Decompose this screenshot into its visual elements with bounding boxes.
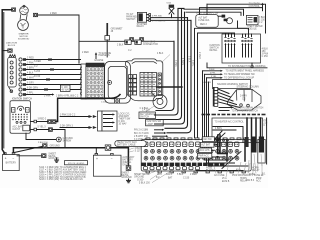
svg-text:FUSE 40A: FUSE 40A (198, 19, 209, 22)
wire: second top run (200, 8, 263, 15)
svg-text:3 PNK 150 C 2: 3 PNK 150 C 2 (60, 114, 76, 116)
bolt terminal on lower feed (48, 128, 52, 132)
svg-text:ACC LPS: ACC LPS (200, 149, 210, 152)
svg-text:5 BRN: 5 BRN (27, 68, 34, 70)
ground symbol G2 (127, 179, 131, 183)
C201 terminal pins (89, 115, 97, 118)
connector C201 housing (98, 111, 118, 131)
label above column connector (237, 87, 260, 89)
svg-text:3 PNK: 3 PNK (174, 60, 176, 67)
svg-text:1 WHT: 1 WHT (27, 78, 35, 80)
svg-text:−: − (12, 156, 14, 160)
label below module (247, 26, 263, 30)
svg-text:6 GRY: 6 GRY (27, 83, 34, 85)
fusible link box (196, 15, 218, 28)
svg-text:2 RED: 2 RED (82, 52, 89, 54)
fuse cavity row 1 (144, 142, 239, 147)
svg-text:C 150: C 150 (183, 178, 190, 180)
wire: battery feed to junction ring terminal (2, 50, 8, 52)
wire: stud feed upper (184, 9, 244, 15)
svg-text:5 BLK 28: 5 BLK 28 (203, 82, 212, 84)
lock cylinder circle (151, 93, 167, 109)
wire: relay to bundle (lower) (151, 19, 191, 21)
labels inside column connector (240, 94, 247, 100)
ground screw G101 (56, 137, 61, 142)
label: C100 48-way (60, 85, 70, 91)
svg-text:G 200: G 200 (137, 179, 144, 181)
callout box 2 (146, 119, 164, 125)
svg-text:HAZARD WARNING SWITCH: HAZARD WARNING SWITCH (217, 83, 248, 86)
label: JUNCTION BLOCK (6, 43, 17, 47)
relay bank on fuse block (251, 137, 256, 153)
svg-text:S 206: S 206 (34, 71, 41, 73)
wire: aux battery positive riser (95, 148, 97, 154)
svg-text:SWITCH: SWITCH (126, 19, 135, 21)
svg-text:2 RED: 2 RED (50, 13, 57, 15)
wire: main feed top run (207, 4, 266, 33)
wire: engine ground cable (79, 40, 174, 42)
leader lines right labels (214, 154, 262, 177)
svg-text:5 DK GRN 3: 5 DK GRN 3 (60, 125, 73, 127)
label: STARTER MOTOR SOLENOID (18, 33, 30, 41)
svg-text:SPLICE LEGEND: SPLICE LEGEND (68, 163, 85, 165)
leader lines from labels to block (148, 171, 170, 183)
leader and label 2 A 218 (142, 106, 155, 112)
svg-text:10 WAY: 10 WAY (119, 123, 128, 126)
battery bus to aux ground (111, 148, 129, 166)
bundle wire 2 (155, 8, 185, 115)
solenoid battery terminal bolt (left) (12, 8, 16, 11)
svg-text:5 PPL 806: 5 PPL 806 (152, 16, 162, 18)
splice legend header box (65, 161, 88, 165)
battery B1 (3, 153, 20, 171)
svg-text:+: + (96, 157, 98, 161)
bulkhead terminal row 4 (19, 73, 81, 78)
wire row under column: arrow (219, 106, 264, 109)
svg-text:2 BLK: 2 BLK (209, 69, 215, 71)
svg-text:IGN SW: IGN SW (203, 139, 212, 141)
labels left of callouts (140, 108, 149, 110)
knock sensor module U1 (246, 15, 258, 24)
svg-text:B/U 3 LT GRN: B/U 3 LT GRN (134, 133, 149, 135)
bolt terminals on ignition feed (48, 120, 56, 124)
solenoid switch terminal bolt (right) (33, 13, 37, 16)
fan-out wires to column connector (218, 89, 240, 108)
svg-text:SCREW: SCREW (63, 140, 72, 142)
svg-text:SOLENOID: SOLENOID (18, 38, 30, 40)
solenoid link between windings (20, 14, 27, 20)
bundle wire 12 (209, 82, 249, 166)
aux battery B2 (diesel) (93, 153, 121, 176)
bulkhead terminal row 2 (19, 63, 81, 68)
wire row: arrow 1 (203, 69, 265, 73)
plate terminal strip (158, 73, 161, 96)
svg-text:−: − (111, 157, 113, 161)
heavy take-off wire across bundle (157, 86, 184, 88)
labels right of detail box (262, 49, 269, 58)
svg-text:TO KEY ALARM SWITCH: TO KEY ALARM SWITCH (232, 109, 259, 112)
svg-text:4 BRN: 4 BRN (215, 128, 222, 130)
wire: connector C202 feed (60, 127, 89, 129)
label: grommet (111, 28, 124, 32)
svg-text:LAMP: LAMP (147, 123, 154, 126)
svg-text:4 PPL: 4 PPL (210, 73, 216, 75)
svg-text:IGN A: IGN A (166, 173, 173, 176)
contact set B (241, 34, 252, 57)
starter interrupt relay R1 (137, 12, 150, 22)
junction stud with nuts (218, 15, 232, 24)
heavy ignition feed wire up and right (56, 95, 120, 122)
ignition switch mounting plate (125, 59, 162, 101)
svg-text:IGN ST: IGN ST (12, 129, 20, 131)
relay fan leaders to labels (244, 163, 263, 176)
svg-text:S 117: S 117 (135, 150, 142, 152)
ignition switch box (10, 101, 30, 133)
leader from plate to bundle labels (161, 55, 170, 64)
svg-text:RELAY: RELAY (137, 25, 145, 28)
svg-text:2 RED: 2 RED (198, 52, 200, 59)
wire row under column 2 (219, 109, 258, 112)
wire: solenoid S terminal to engine harness (38, 15, 79, 63)
junction block terminals (10, 61, 13, 84)
svg-text:3 YEL: 3 YEL (211, 76, 217, 78)
bundle wire labels (174, 52, 200, 67)
svg-text:ENGINE: ENGINE (95, 60, 104, 62)
C100 bulkhead connector pin grid (86, 67, 104, 99)
svg-text:GROUND: GROUND (50, 146, 61, 148)
svg-text:SHEET METAL: SHEET METAL (134, 173, 150, 176)
wire: feed into fusible link box (206, 4, 208, 14)
svg-text:S218 = 3 PNK (2M) TO FUSE BLOC: S218 = 3 PNK (2M) TO FUSE BLOCK IGN (39, 179, 83, 181)
labels right of convenience center (263, 119, 268, 127)
svg-text:ALT BAT: ALT BAT (201, 144, 211, 147)
bundle wire 8 into fuse block (198, 33, 235, 138)
svg-text:3 PPL: 3 PPL (27, 93, 34, 95)
svg-text:3 PPL: 3 PPL (191, 60, 193, 67)
svg-text:ACC: ACC (157, 173, 162, 176)
bundle wire 11 (207, 78, 235, 163)
svg-text:2 RED: 2 RED (190, 174, 197, 176)
svg-text:TO INSTRUMENT PANEL DIMMING: TO INSTRUMENT PANEL DIMMING (228, 65, 266, 68)
svg-text:2 BLK 150: 2 BLK 150 (38, 142, 49, 144)
wire: pin to bolts (37, 121, 48, 123)
svg-text:5 YEL 3: 5 YEL 3 (38, 127, 47, 129)
C100 bulkhead connector header bar (86, 63, 104, 67)
svg-text:ACC BAT: ACC BAT (12, 126, 22, 129)
starter motor solenoid lower body (18, 20, 29, 31)
convenience center wires (213, 120, 244, 142)
connector position assurance boxes (top) (125, 40, 158, 46)
svg-text:3 RED 2: 3 RED 2 (38, 119, 47, 121)
wire corner to module bottom (238, 21, 247, 28)
bulkhead terminal row 6 (19, 83, 81, 86)
battery stud bolt on ground cable (130, 38, 134, 42)
fuse block mounting feet (146, 171, 245, 173)
steering column connector pin stack (213, 87, 218, 106)
fuse block internal bus columns (227, 140, 245, 161)
label: aux sheet metal ground (121, 172, 132, 179)
fuse block top tabs (146, 138, 248, 140)
fuse cavity row 4 (144, 167, 200, 170)
stud bolt on battery bus (105, 145, 111, 150)
fuse block labels bottom-left (134, 173, 150, 185)
convenience center pin dots (215, 139, 229, 141)
svg-text:S RED: S RED (34, 61, 41, 63)
junction block body (8, 55, 17, 93)
fuse cavity row 2 (144, 149, 239, 153)
arrow to spark control (249, 2, 264, 10)
convenience center internal verticals (247, 118, 261, 143)
wire: lower pin to battery bus (37, 130, 65, 148)
labels right of riser (130, 148, 142, 153)
wire row: arrow 3 (207, 76, 255, 80)
svg-text:ECM B: ECM B (222, 181, 230, 183)
labels above ignition feed wires (44, 95, 79, 97)
svg-text:STEERING COLUMN: STEERING COLUMN (237, 87, 260, 89)
callout rows with arrows (center) (134, 129, 164, 132)
fuse labels bottom-center (156, 173, 197, 179)
labels right of module (259, 17, 266, 24)
ring terminal sheet metal ground (42, 154, 46, 158)
wire: ignition ground (26, 133, 56, 139)
C100 mating strip (81, 64, 87, 99)
ignition switch pin lower (30, 128, 36, 131)
svg-text:ACC: ACC (256, 179, 261, 182)
svg-text:GROUND: GROUND (121, 177, 132, 179)
grommet on firewall wire (105, 23, 110, 57)
svg-text:FUSE: FUSE (249, 174, 256, 176)
ignition switch internals (11, 106, 30, 131)
svg-text:BAT: BAT (168, 177, 173, 180)
svg-text:PWR WDO: PWR WDO (232, 175, 244, 177)
svg-text:BATTERY CABLE: BATTERY CABLE (117, 144, 136, 147)
svg-text:2 RED: 2 RED (27, 58, 34, 60)
svg-text:5 BLK: 5 BLK (177, 174, 184, 176)
bulkhead terminal row 1 (19, 58, 81, 63)
svg-text:2 BLK: 2 BLK (117, 45, 124, 47)
svg-text:BLOCK: BLOCK (206, 170, 214, 172)
starter motor solenoid upper winding (20, 5, 29, 15)
labels right of C201 (119, 114, 132, 126)
battery stud bolt 2 on ground cable (140, 38, 144, 42)
label boxes stack left of fuse block (202, 137, 219, 142)
bulkhead terminal row 8 (19, 93, 54, 96)
svg-text:HARNESS: HARNESS (98, 54, 110, 57)
plate inner grid A (129, 75, 137, 95)
bundle wire 1 (156, 41, 174, 110)
convenience center box (212, 118, 263, 143)
svg-text:TO HEADLAMP DIMMER SW: TO HEADLAMP DIMMER SW (224, 73, 256, 76)
svg-text:IGNITION SWITCH: IGNITION SWITCH (12, 99, 32, 101)
svg-text:+: + (5, 157, 7, 161)
C100 cover plate outline (105, 62, 131, 104)
bundle wire 3 (157, 9, 182, 119)
wire: battery to frame ground (15, 146, 43, 152)
ring terminal at junction feed (8, 49, 12, 52)
wire: connector C201 feed (60, 116, 89, 118)
svg-text:48 WAY: 48 WAY (61, 88, 70, 91)
svg-text:BATTERY: BATTERY (6, 162, 17, 165)
svg-text:PWR ACC: PWR ACC (198, 155, 209, 158)
fuse block bus bar band (142, 163, 225, 166)
bulkhead terminal row 3 (19, 68, 81, 73)
svg-text:BLOCK: BLOCK (8, 45, 16, 47)
svg-text:C 2 BLK: C 2 BLK (140, 108, 149, 110)
splice S206 symbol (166, 3, 174, 18)
wire: battery positive riser (13, 148, 105, 153)
svg-text:TO TURN SIGNAL SWITCH: TO TURN SIGNAL SWITCH (235, 106, 264, 109)
svg-text:4 BLK: 4 BLK (27, 73, 34, 75)
ground symbol G1 (55, 158, 59, 163)
svg-text:P/N 2 A 218M: P/N 2 A 218M (134, 129, 148, 132)
bundle wire 6 (167, 20, 191, 132)
fuse block body (141, 140, 251, 172)
svg-text:5 BLK: 5 BLK (188, 56, 190, 63)
svg-text:RELAY: RELAY (240, 179, 248, 182)
hot-at-all-times dashed strip (202, 114, 266, 116)
svg-text:25 A: 25 A (222, 177, 227, 180)
wire: battery cable second strand (3, 13, 5, 149)
wire: battery to sheet metal ground (17, 155, 42, 157)
svg-text:3 PPL 806 C 2: 3 PPL 806 C 2 (152, 20, 166, 22)
callout box: accessory delay (139, 112, 156, 119)
label: ground screw (63, 138, 74, 142)
fuse cavity row 3 (144, 156, 239, 160)
wire labels on relay wires (152, 16, 166, 23)
C202 terminal pins (89, 126, 97, 129)
label: ignition switch (left of box) (210, 45, 221, 52)
svg-text:2 RED 150 2 RED C 150: 2 RED 150 2 RED C 150 (196, 12, 219, 14)
svg-text:R 150: R 150 (34, 76, 41, 78)
bundle dark wire 9 (203, 71, 223, 157)
svg-text:A/C FUSE: A/C FUSE (214, 174, 225, 177)
svg-text:4 BLK: 4 BLK (157, 53, 164, 55)
label: auxiliary battery (122, 156, 134, 166)
label: sheet metal ground (48, 153, 59, 160)
long bottom wire (196, 170, 243, 172)
dark stub pair into block (218, 135, 220, 153)
label left of relay (126, 13, 138, 21)
ring terminal frame ground (43, 144, 61, 148)
fuse labels bottom-right (206, 167, 264, 183)
svg-text:TO HEATER A/C CONTROL: TO HEATER A/C CONTROL (215, 120, 245, 123)
bulkhead terminal row 5 (19, 78, 81, 81)
svg-text:RED 2: RED 2 (200, 24, 207, 26)
svg-text:8 DK GRN: 8 DK GRN (27, 88, 38, 90)
svg-text:3 PNK: 3 PNK (44, 95, 51, 97)
svg-text:GROUND: GROUND (134, 176, 145, 178)
wire: stud feed lower (186, 12, 241, 15)
svg-text:DETAIL: DETAIL (210, 49, 219, 52)
svg-text:2-WAY: 2-WAY (240, 94, 247, 97)
splice legend rows (39, 166, 87, 181)
svg-text:C 250: C 250 (262, 56, 268, 58)
ignition switch pin upper (30, 120, 36, 123)
plate double top edge (132, 62, 157, 64)
bundle wire 4 (155, 12, 185, 124)
svg-text:CONNECTOR: CONNECTOR (143, 44, 158, 46)
bundle dark wire 10 (205, 74, 229, 160)
convenience center diagonals (213, 131, 225, 142)
ground screw under detail box (251, 63, 253, 68)
heavy duty label stadium (115, 141, 146, 147)
ignition switch contact detail box (222, 34, 261, 63)
right edge wire (266, 118, 268, 164)
contact set A (224, 34, 235, 57)
svg-text:TO INSTRUMENT PANEL HARNESS: TO INSTRUMENT PANEL HARNESS (226, 70, 265, 73)
plate inner grid B (140, 72, 156, 96)
bundle wire 5 (165, 18, 188, 129)
svg-text:2 BRN 4 PPL 806 C 2: 2 BRN 4 PPL 806 C 2 (56, 95, 79, 97)
bundle wire 7 (195, 28, 249, 137)
label: STARTER RELAY (137, 23, 148, 28)
svg-text:4 BRN: 4 BRN (181, 58, 183, 65)
ring terminal aux ground (126, 166, 131, 171)
svg-text:SWITCH: SWITCH (140, 116, 149, 118)
svg-text:3 PNK: 3 PNK (27, 63, 34, 65)
svg-text:5 BLK 150: 5 BLK 150 (139, 182, 150, 184)
wire row: to instrument panel (207, 63, 267, 68)
wire row: arrow 2 (205, 73, 256, 77)
wire: relay to bundle (upper) (151, 17, 188, 19)
wire row: arrow 4 (203, 80, 251, 89)
bulkhead terminal row 7 (19, 88, 81, 91)
wire: solenoid to battery positive (2 RED) (2, 10, 11, 154)
steering column connector body (perspective) (228, 89, 262, 110)
leader lines center labels (160, 172, 198, 174)
svg-text:CONTROL: CONTROL (249, 6, 261, 8)
diagonal leader into fuse cells (222, 152, 241, 169)
extra corner labels (240, 173, 266, 182)
svg-text:RUN: RUN (26, 109, 31, 111)
